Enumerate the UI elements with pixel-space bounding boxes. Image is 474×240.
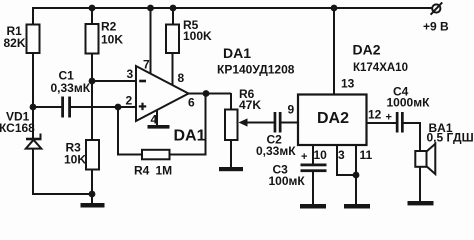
svg-text:+: +: [301, 151, 307, 163]
op-amp DA1 triangle: [136, 66, 189, 121]
svg-text:DA1: DA1: [223, 45, 251, 61]
capacitor C1: [61, 97, 71, 118]
wire DA2 pin3 down and right to pin11 line: [337, 145, 356, 175]
svg-text:КС168: КС168: [0, 121, 35, 135]
IC DA2 box: [298, 95, 367, 146]
svg-text:DA2: DA2: [317, 110, 349, 127]
wire R5 bottom to pin8: [172, 52, 174, 88]
node junction top rail pin7: [147, 5, 154, 12]
wire feedback left vertical from pin2 node: [117, 106, 119, 156]
wire input node to C1: [33, 106, 62, 108]
svg-text:R4: R4: [134, 164, 150, 178]
speaker BA1: [415, 144, 435, 174]
svg-text:1M: 1M: [156, 164, 173, 178]
svg-text:0,33мК: 0,33мК: [256, 144, 296, 158]
potentiometer R6 body: [225, 110, 238, 141]
svg-text:12: 12: [368, 108, 382, 122]
svg-text:7: 7: [143, 58, 150, 72]
svg-text:+: +: [386, 112, 392, 124]
wire feedback right vertical to output node: [205, 93, 207, 156]
svg-text:10K: 10K: [101, 33, 123, 47]
wire pin4 down to ground: [156, 108, 158, 126]
svg-text:11: 11: [360, 148, 373, 162]
wire DA2 pin10 to C3: [312, 145, 314, 164]
node junction pin3 / R2 R3 divider: [89, 78, 96, 85]
wire C2 to DA2 pin9: [282, 122, 300, 124]
svg-text:DA2: DA2: [353, 42, 381, 58]
node junction top rail pin13: [331, 5, 338, 12]
ground (input bias bottom): [81, 194, 105, 208]
wire C3 to ground: [312, 172, 314, 206]
resistor R4: [142, 150, 170, 160]
wire R2 top lead: [91, 8, 93, 25]
op-amp DA1 plus input mark: [139, 103, 146, 110]
svg-text:10: 10: [314, 148, 328, 162]
node junction input / VD1: [30, 104, 37, 111]
wire R5 top lead: [172, 8, 174, 26]
resistor R3: [86, 140, 99, 170]
svg-text:3: 3: [338, 148, 345, 162]
svg-text:6: 6: [188, 96, 195, 110]
ground (speaker): [408, 201, 434, 205]
svg-text:0,5 ГДШ: 0,5 ГДШ: [427, 131, 474, 145]
wire R2 bottom through pin3 node to R3 top: [91, 53, 93, 141]
ground (R6 bottom): [219, 167, 243, 171]
svg-text:2: 2: [126, 94, 133, 108]
svg-text:4: 4: [151, 113, 158, 127]
node junction top rail R5: [170, 5, 177, 12]
wire pin13 supply from rail: [333, 8, 335, 96]
wire speaker to ground: [419, 166, 421, 203]
wire DA2 pin11 down to ground: [355, 145, 357, 206]
svg-text:1000мК: 1000мК: [387, 96, 431, 110]
capacitor C2: [274, 112, 282, 133]
node junction DA2 pin3 / pin11: [353, 172, 360, 179]
node junction pin2 / feedback: [115, 104, 122, 111]
potentiometer R6 wiper arrow: [239, 118, 248, 126]
wire R6 wiper to C2: [245, 122, 274, 124]
node junction bottom ground: [89, 191, 96, 198]
wire DA2 pin12 to C4: [366, 122, 396, 124]
wire bottom VD1 to ground node: [32, 193, 92, 195]
wire VD1 anode to bottom wire: [32, 148, 34, 195]
svg-text:100K: 100K: [183, 29, 212, 43]
wire R1 top lead: [32, 8, 34, 26]
svg-text:9: 9: [288, 103, 295, 117]
svg-text:100мК: 100мК: [269, 174, 306, 188]
resistor R5: [166, 25, 179, 54]
svg-text:3: 3: [127, 67, 134, 81]
zener diode VD1: [26, 134, 42, 149]
wire feedback bottom left to R4: [117, 154, 143, 156]
wire C4 to speaker: [404, 123, 421, 152]
svg-text:82K: 82K: [4, 36, 26, 50]
svg-text:R2: R2: [101, 20, 117, 34]
svg-text:0,33мК: 0,33мК: [51, 81, 91, 95]
wire pin3 node to op-amp inverting input: [92, 80, 137, 82]
op-amp DA1 minus input mark: [139, 80, 146, 83]
svg-text:47K: 47K: [239, 98, 261, 112]
svg-text:К174ХА10: К174ХА10: [353, 62, 408, 74]
svg-text:13: 13: [341, 77, 355, 91]
svg-text:10K: 10K: [64, 153, 86, 167]
svg-text:DA1: DA1: [174, 128, 206, 145]
wire R1 bottom to input node to VD1 cathode: [32, 52, 34, 139]
wire pin7 supply from rail: [150, 8, 152, 77]
resistor R2: [86, 24, 99, 54]
ground (C3): [300, 204, 326, 209]
wire R6 top lead: [230, 93, 232, 110]
svg-text:КР140УД1208: КР140УД1208: [217, 63, 295, 77]
wire output pin6 to R6: [188, 93, 231, 95]
node junction top rail R2: [89, 5, 96, 12]
resistor R1: [27, 25, 40, 54]
svg-text:+9 В: +9 В: [423, 20, 449, 34]
wire R3 bottom lead to ground node: [91, 169, 93, 194]
capacitor C3: [301, 164, 327, 173]
svg-text:8: 8: [178, 71, 185, 85]
wire C1 to op-amp pin2: [70, 106, 137, 108]
wire R6 bottom lead to ground: [230, 140, 232, 168]
wire feedback R4 to right vertical: [168, 154, 206, 156]
capacitor C4: [396, 112, 404, 133]
wire +9V top rail: [32, 7, 433, 9]
terminal +9V: [431, 2, 443, 14]
node junction output pin6 / R4: [203, 90, 210, 97]
ground (DA1 pin4): [148, 125, 170, 129]
ground (DA2 pin11): [344, 204, 370, 209]
